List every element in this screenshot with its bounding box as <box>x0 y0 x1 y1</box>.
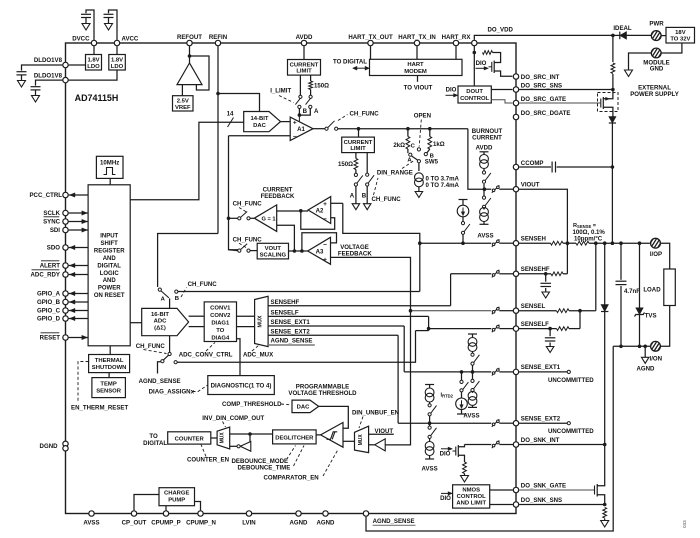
wire DLDO1V8 lower ext cap <box>36 80 63 86</box>
wire A3 feedback loop <box>302 233 337 251</box>
svg-text:GPIO_D: GPIO_D <box>37 316 61 323</box>
wire SENSELF internal <box>429 328 492 330</box>
svg-text:DO_SRC_SNS: DO_SRC_SNS <box>521 83 562 90</box>
current source SENSEH single <box>462 200 464 205</box>
wire DO_SRC_GATE external <box>519 102 601 104</box>
svg-text:SHUTDOWN: SHUTDOWN <box>92 365 127 371</box>
chopper switch SENSE_EXT1 <box>492 368 500 376</box>
svg-text:CONTROL: CONTROL <box>460 96 489 102</box>
wire DVCC to LDO <box>93 46 95 54</box>
wire to current limit 2 <box>358 129 360 137</box>
svg-text:DIO: DIO <box>446 87 457 94</box>
capacitor 4.7nF <box>620 243 622 280</box>
node SENSEHF cap tap <box>544 272 548 276</box>
wire I/OP to LOAD <box>660 243 669 269</box>
ground snk resistor <box>601 521 609 528</box>
wire ext1 lower branchB <box>472 372 474 379</box>
wire feedback column <box>229 136 239 250</box>
svg-text:DOUT: DOUT <box>466 89 483 95</box>
svg-text:VREF: VREF <box>175 105 191 111</box>
svg-text:LOGIC: LOGIC <box>100 271 120 277</box>
wire AVDD to current limit <box>303 46 305 59</box>
ground DLDO1V8 lower cap <box>32 96 40 103</box>
resistor sense ext 1 <box>551 241 564 245</box>
arrow TO DIGITAL double <box>355 67 368 69</box>
svg-text:LOAD: LOAD <box>643 286 661 293</box>
svg-text:SENSELF: SENSELF <box>521 321 549 328</box>
wire G1 lower input to A3 output <box>277 225 295 251</box>
terminal CPUMP_P <box>163 511 168 516</box>
ground DIN source <box>415 192 423 198</box>
wire DOUT CONTROL to DO_SRC_SNS <box>491 89 512 91</box>
svg-text:DIN_RANGE: DIN_RANGE <box>377 169 413 176</box>
wire AVCC decoupling <box>109 10 118 43</box>
svg-text:GPIO_A: GPIO_A <box>37 291 61 298</box>
dashed EN_THERM_RESET <box>78 362 89 403</box>
terminal AGND 2 <box>323 511 328 516</box>
switch VOUT SCALING input <box>229 249 238 252</box>
underline AGND_SENSE bottom <box>373 524 416 526</box>
svg-text:DEGLITCHER: DEGLITCHER <box>275 435 314 441</box>
node DO_SNK_INT diode line <box>603 443 607 447</box>
terminal AVDD <box>301 40 306 45</box>
svg-text:MODEM: MODEM <box>404 69 427 75</box>
wire ext2 lower <box>429 423 431 426</box>
resistor SENSEL ext <box>557 309 570 313</box>
svg-text:DIGITAL: DIGITAL <box>97 263 121 269</box>
terminal HART_TX_OUT <box>368 40 373 45</box>
wire SENSEH external resistor 1 <box>519 242 550 244</box>
node SENSEL SENSELF junction <box>578 309 582 313</box>
diode sense to DO_SNK_INT <box>604 243 606 304</box>
svg-text:DAC: DAC <box>253 123 266 129</box>
resistor SENSEHF ext <box>551 272 563 276</box>
wire ADC bottom B to SENSELF tap <box>177 331 415 363</box>
adc 16-BIT ADC <box>142 308 189 335</box>
svg-text:INPUT: INPUT <box>100 234 118 240</box>
dashed ADC_MUX to mux <box>252 346 259 352</box>
svg-text:A: A <box>161 296 166 302</box>
wire SENSE_EXT1 internal <box>404 371 491 373</box>
node SENSEL tap A3 <box>409 309 413 313</box>
diode TVS <box>639 243 641 308</box>
wire DLDO1V8 upper to LDO <box>69 64 86 66</box>
rail bar IRTD2 bottom <box>457 413 466 415</box>
dashed CH_FUNC to switch B <box>374 178 379 195</box>
wire B contact to SENSEH tap <box>178 291 420 293</box>
wire DO_VDD down <box>473 46 475 86</box>
terminal GPIO_B <box>63 299 68 304</box>
mux DIN mux <box>217 427 230 449</box>
dashed COUNTER_EN to counter <box>201 445 206 457</box>
contact A SW5 <box>409 153 412 156</box>
switch CH_FUNC at A1 output <box>325 127 328 130</box>
wire SENSEH internal <box>420 242 492 244</box>
wire VOUT SCALING to A3 <box>289 250 308 252</box>
dashed CH_FUNC to A1 switch <box>338 115 348 121</box>
wire CP_OUT to charge pump <box>134 495 159 511</box>
op-amp A1 <box>290 117 313 140</box>
svg-text:SHIFT: SHIFT <box>101 241 119 247</box>
rail bar AVSS burnout <box>480 223 489 225</box>
terminal DO_SRC_GATE <box>513 100 518 105</box>
svg-text:A: A <box>314 108 319 115</box>
svg-text:DO_SRC_GATE: DO_SRC_GATE <box>521 96 566 103</box>
terminal AVSS bottom <box>89 511 94 516</box>
svg-text:10MHz: 10MHz <box>100 159 119 166</box>
wire DIN mux2 to schmitt <box>343 440 355 442</box>
wire SW5 to DIN current source <box>418 163 420 171</box>
svg-text:AND LIMIT: AND LIMIT <box>456 500 486 506</box>
svg-text:OPEN: OPEN <box>414 113 431 120</box>
svg-text:ADC_RDY: ADC_RDY <box>31 272 60 279</box>
wire register to thermal shutdown <box>109 346 111 355</box>
svg-text:SENSE_EXT1: SENSE_EXT1 <box>521 364 561 371</box>
wire VIOUT stub <box>369 433 394 435</box>
terminal GPIO_C <box>63 308 68 313</box>
svg-text:TO: TO <box>216 328 224 334</box>
svg-text:DIO: DIO <box>476 60 487 67</box>
transistor internal sink FET <box>453 450 456 452</box>
block 2.5V VREF <box>173 96 194 111</box>
svg-text:−: − <box>323 241 327 248</box>
node feedback to G=1 tap <box>227 217 231 221</box>
terminal CPUMP_N <box>198 511 203 516</box>
terminal SYNC <box>63 219 68 224</box>
terminal DO_VDD <box>472 40 477 45</box>
contact A ADC bottom <box>161 360 164 363</box>
capacitor CCOMP <box>551 162 553 173</box>
chopper switch VIOUT <box>492 185 500 193</box>
switch G1 input <box>229 217 238 219</box>
contact A ADC input <box>158 288 161 291</box>
wire supply bus <box>613 34 620 36</box>
svg-text:−: − <box>323 216 327 223</box>
chopper switch SENSELF <box>492 325 500 333</box>
wire SENSE_EXT1 uncommitted stub <box>519 371 567 373</box>
wire DO_SRC_SNS external <box>519 89 613 91</box>
wire cap to gnd <box>108 18 110 24</box>
dashed INV_DIN_COMP_OUT to mux <box>223 422 226 428</box>
terminal DO_SNK_SNS <box>513 502 518 507</box>
svg-text:CONV2: CONV2 <box>210 313 231 319</box>
wire A3+ from SENSEL route <box>331 257 411 310</box>
svg-text:AD74115H: AD74115H <box>75 93 119 103</box>
wire SENSEHF internal <box>451 273 492 275</box>
svg-text:FEEDBACK: FEEDBACK <box>338 251 372 258</box>
svg-text:HART_RX: HART_RX <box>442 34 472 41</box>
wire SENSEL external <box>519 310 556 312</box>
wire SYNC <box>69 221 89 223</box>
capacitor DLDO1V8 lower <box>31 86 41 88</box>
contact B ADC input <box>175 290 178 293</box>
wire SCLK <box>69 212 89 214</box>
contact ADC bottom to SENSELF <box>174 361 177 364</box>
svg-text:A2: A2 <box>316 208 324 215</box>
current source ext1 upper <box>472 334 474 338</box>
svg-text:SYNC: SYNC <box>43 219 61 226</box>
block DOUT CONTROL <box>458 86 491 103</box>
wire DO_SNK_INT internal <box>465 444 492 446</box>
node supply to FET <box>611 34 615 38</box>
terminal SCLK <box>63 210 68 215</box>
terminal GPIO_A <box>63 291 68 296</box>
node sense rail taps <box>594 241 598 245</box>
wire CONV to DIAGNOSTIC <box>237 339 241 376</box>
terminal DLDO1V8 lower <box>63 77 68 82</box>
svg-text:REFOUT: REFOUT <box>177 34 202 41</box>
node REFOUT feedback tap <box>188 54 192 58</box>
switch SW5 blade <box>412 156 418 160</box>
wire SENSEL internal <box>411 310 492 312</box>
arrow DIO to DOUT CONTROL <box>446 94 456 96</box>
node ext1 tapB <box>471 370 475 374</box>
svg-text:SENSE_EXT2: SENSE_EXT2 <box>271 328 311 335</box>
svg-text:COUNTER_EN: COUNTER_EN <box>187 456 229 463</box>
ground MODULE GND <box>625 70 633 77</box>
block CURRENT LIMIT lower <box>342 137 375 153</box>
node ext2 column tap <box>428 421 432 425</box>
terminal HART_TX_IN <box>414 40 419 45</box>
dashed DEBOUNCE_MODE to deglitcher <box>287 446 296 460</box>
op-amp A3 <box>308 237 331 264</box>
svg-text:CPUMP_P: CPUMP_P <box>151 520 180 527</box>
switch blade ADC bottom <box>164 355 169 360</box>
dashed CH_FUNC to ADC bottom switch <box>144 350 167 354</box>
svg-text:AVSS: AVSS <box>463 412 479 419</box>
wire supply box to MODULE GND <box>661 43 682 53</box>
svg-text:EN_THERM_RESET: EN_THERM_RESET <box>71 405 129 412</box>
resistor supply <box>611 63 615 74</box>
svg-text:ADC: ADC <box>154 319 167 325</box>
wire sense node down to SENSEHF <box>566 243 568 274</box>
wire main output bus <box>338 128 468 130</box>
resistor 1k ohm <box>429 129 431 137</box>
svg-text:CURRENT: CURRENT <box>290 62 319 68</box>
node DO_SRC_SNS ext <box>611 88 615 92</box>
wire buffer feedback loop <box>190 56 210 90</box>
rail bar sense current source <box>459 199 468 201</box>
svg-text:CH_FUNC: CH_FUNC <box>372 196 402 203</box>
dashed DIN_UNBUF_EN to mux <box>359 417 363 429</box>
block VOUT SCALING <box>257 243 288 259</box>
svg-text:0 TO 7.4mA: 0 TO 7.4mA <box>426 182 460 189</box>
wire leg A with 150 ohm <box>355 153 357 159</box>
wire CONV to MUX lower <box>237 326 255 328</box>
ground sink FET <box>461 476 469 483</box>
wire mux SENSE_EXT1 <box>268 325 404 327</box>
block THERMAL SHUTDOWN <box>89 355 130 373</box>
schmitt trigger comparator <box>321 423 343 448</box>
switch I_LIMIT B <box>299 95 302 98</box>
svg-text:CONTROL: CONTROL <box>457 494 486 500</box>
node ext1 tapA <box>460 370 464 374</box>
node main bus 2k tap <box>406 127 410 131</box>
wire nmos control to DO_SNK_SNS <box>490 504 513 506</box>
wire AVCC to LDO <box>116 46 118 54</box>
svg-text:TEMP: TEMP <box>100 381 116 387</box>
svg-text:I/ON: I/ON <box>650 356 663 363</box>
terminal AVCC <box>114 40 119 45</box>
block CONV1 CONV2 DIAG1 TO DIAG4 <box>204 302 236 342</box>
terminal AGND 1 <box>296 511 301 516</box>
svg-text:LIMIT: LIMIT <box>350 146 366 152</box>
op-amp A2 <box>308 197 331 224</box>
svg-text:SCALING: SCALING <box>260 253 287 259</box>
svg-text:+: + <box>323 201 327 208</box>
buffer DIN input <box>375 439 386 451</box>
wire DVCC decoupling <box>86 10 94 43</box>
svg-text:16-BIT: 16-BIT <box>151 312 169 318</box>
ground SENSEHF cap <box>542 292 550 298</box>
wire to ground B <box>366 186 368 204</box>
svg-text:LVIN: LVIN <box>242 520 255 527</box>
wire SDI <box>69 229 89 231</box>
switch ext1 lowerB <box>474 381 480 389</box>
contact B SW5 <box>424 153 427 156</box>
rail bar ext1 source top <box>468 333 477 335</box>
transistor external high-side FET <box>600 99 602 108</box>
wire GPIO_D <box>69 318 89 320</box>
wire GPIO_A <box>69 293 89 295</box>
svg-text:B: B <box>303 108 308 115</box>
svg-text:DIO: DIO <box>440 495 451 502</box>
svg-text:A: A <box>350 193 355 200</box>
block LOAD <box>664 269 676 306</box>
switch B lower <box>366 173 369 176</box>
svg-text:VIOUT: VIOUT <box>521 182 540 189</box>
svg-text:CCOMP: CCOMP <box>521 160 544 167</box>
wire REFIN down <box>217 46 219 233</box>
wire SENSELF external <box>519 328 550 330</box>
arrow DIO nmos <box>441 492 451 494</box>
wire I/ON to AGND_SENSE route <box>366 346 613 531</box>
switch A lower <box>354 173 357 176</box>
ground DVCC cap <box>82 24 90 31</box>
svg-text:10ppm/°C: 10ppm/°C <box>574 235 603 242</box>
wire to inverter <box>249 434 251 442</box>
dashed box external FET <box>598 93 619 112</box>
capacitor DLDO1V8 upper <box>17 71 27 73</box>
wire leg B <box>366 153 368 174</box>
dashed ADC_CONV_CTRL to CONV box <box>206 343 215 352</box>
svg-text:SW5: SW5 <box>425 159 439 166</box>
wire buffer input from SENSEL line <box>385 311 410 445</box>
wire A2 feedback loop <box>301 211 335 230</box>
svg-text:SENSEHF: SENSEHF <box>271 299 300 306</box>
node snk sns <box>603 503 607 507</box>
wire buffer output to mux <box>369 444 375 446</box>
svg-text:ON RESET: ON RESET <box>94 293 125 299</box>
svg-text:DIO: DIO <box>440 450 451 457</box>
svg-text:AVDD: AVDD <box>476 144 493 151</box>
terminal DO_SRC_INT <box>513 74 518 79</box>
chopper switch SENSEHF <box>492 270 500 278</box>
svg-text:DO_SRC_INT: DO_SRC_INT <box>521 74 560 81</box>
wire DO_SNK_SNS external <box>519 504 605 506</box>
svg-text:CONV1: CONV1 <box>210 306 231 312</box>
svg-text:DIGITAL: DIGITAL <box>143 440 167 447</box>
contact C SW5 <box>417 148 420 151</box>
wire supply down <box>612 35 614 62</box>
svg-text:PWR: PWR <box>649 20 664 27</box>
wire ext1 lower branchA <box>461 372 463 380</box>
regulator 1.8V LDO (analog) <box>109 55 126 71</box>
block CHARGE PUMP <box>159 488 195 506</box>
svg-text:ALERT: ALERT <box>40 263 61 270</box>
contact pivot ADC bottom <box>168 352 171 355</box>
node DO_VDD branch <box>473 51 477 55</box>
wire A2+ from SENSEH route <box>331 202 343 204</box>
block 10MHz oscillator <box>96 156 123 178</box>
svg-text:AGND_SENSE: AGND_SENSE <box>139 378 181 385</box>
svg-text:1.8V: 1.8V <box>111 57 123 63</box>
wire SENSELF down <box>428 316 430 330</box>
svg-text:VOLTAGE THRESHOLD: VOLTAGE THRESHOLD <box>288 390 357 397</box>
resistor DIO FET drain <box>483 51 493 55</box>
node SENSEH A2 tap <box>418 241 422 245</box>
dashed OPEN to contact C <box>419 120 421 147</box>
switch ext2 upper <box>431 406 437 414</box>
wire supply line down to SENSEH node <box>611 123 613 243</box>
wire SENSE_EXT2 internal <box>398 422 491 424</box>
terminal DVCC <box>91 40 96 45</box>
mux ADC_MUX trapezoid <box>255 296 269 346</box>
wire I/ON return <box>613 345 650 347</box>
svg-text:SCLK: SCLK <box>43 210 60 217</box>
svg-text:AGND_SENSE: AGND_SENSE <box>271 338 313 345</box>
node SENSELF mux tap <box>427 327 431 331</box>
wire sense to SENSEL tap <box>595 243 597 311</box>
svg-text:SDO: SDO <box>47 245 60 252</box>
svg-text:AVCC: AVCC <box>122 36 139 43</box>
wire resistor to FET drain <box>493 53 501 62</box>
svg-text:SENSOR: SENSOR <box>96 388 122 394</box>
wire SENSE_EXT2 down <box>397 335 399 423</box>
wire ADC to CONV upper <box>189 315 205 317</box>
wire CPUMP_N to charge pump <box>195 502 201 511</box>
diode external FET source <box>609 117 616 124</box>
wire ADC_RDY <box>69 274 89 276</box>
regulator 1.8V LDO (digital) <box>86 55 102 71</box>
wire cap to gnd <box>85 18 87 24</box>
rail bar ext2 top <box>425 384 434 386</box>
terminal SENSELF <box>513 326 518 331</box>
wire ADC bottom pin <box>169 336 171 353</box>
chip boundary AD74115H <box>66 43 517 514</box>
switch ext2 lower <box>431 428 437 436</box>
block DEGLITCHER <box>273 430 317 444</box>
diode IDEAL <box>620 32 627 40</box>
node main bus 1k tap <box>428 127 432 131</box>
svg-text:18V: 18V <box>675 30 686 36</box>
chopper switch SENSEH <box>492 239 500 247</box>
block COUNTER <box>168 432 211 444</box>
svg-text:HART_TX_IN: HART_TX_IN <box>398 34 436 41</box>
svg-text:PCC_CTRL: PCC_CTRL <box>29 192 62 199</box>
wire CPUMP_P to charge pump <box>165 506 167 511</box>
svg-text:TO DIGITAL: TO DIGITAL <box>333 59 367 66</box>
wire mux top input from deglitcher <box>230 433 273 435</box>
svg-text:DGND: DGND <box>40 443 59 450</box>
wire REFIN to DAC top <box>218 94 260 112</box>
svg-text:HART_TX_OUT: HART_TX_OUT <box>348 34 393 41</box>
svg-text:COUNTER: COUNTER <box>175 436 205 442</box>
svg-text:AGND: AGND <box>290 520 309 527</box>
wire CONV to MUX upper <box>237 315 255 317</box>
svg-text:DIN_UNBUF_EN: DIN_UNBUF_EN <box>352 409 399 416</box>
svg-text:DO_VDD: DO_VDD <box>488 27 514 34</box>
